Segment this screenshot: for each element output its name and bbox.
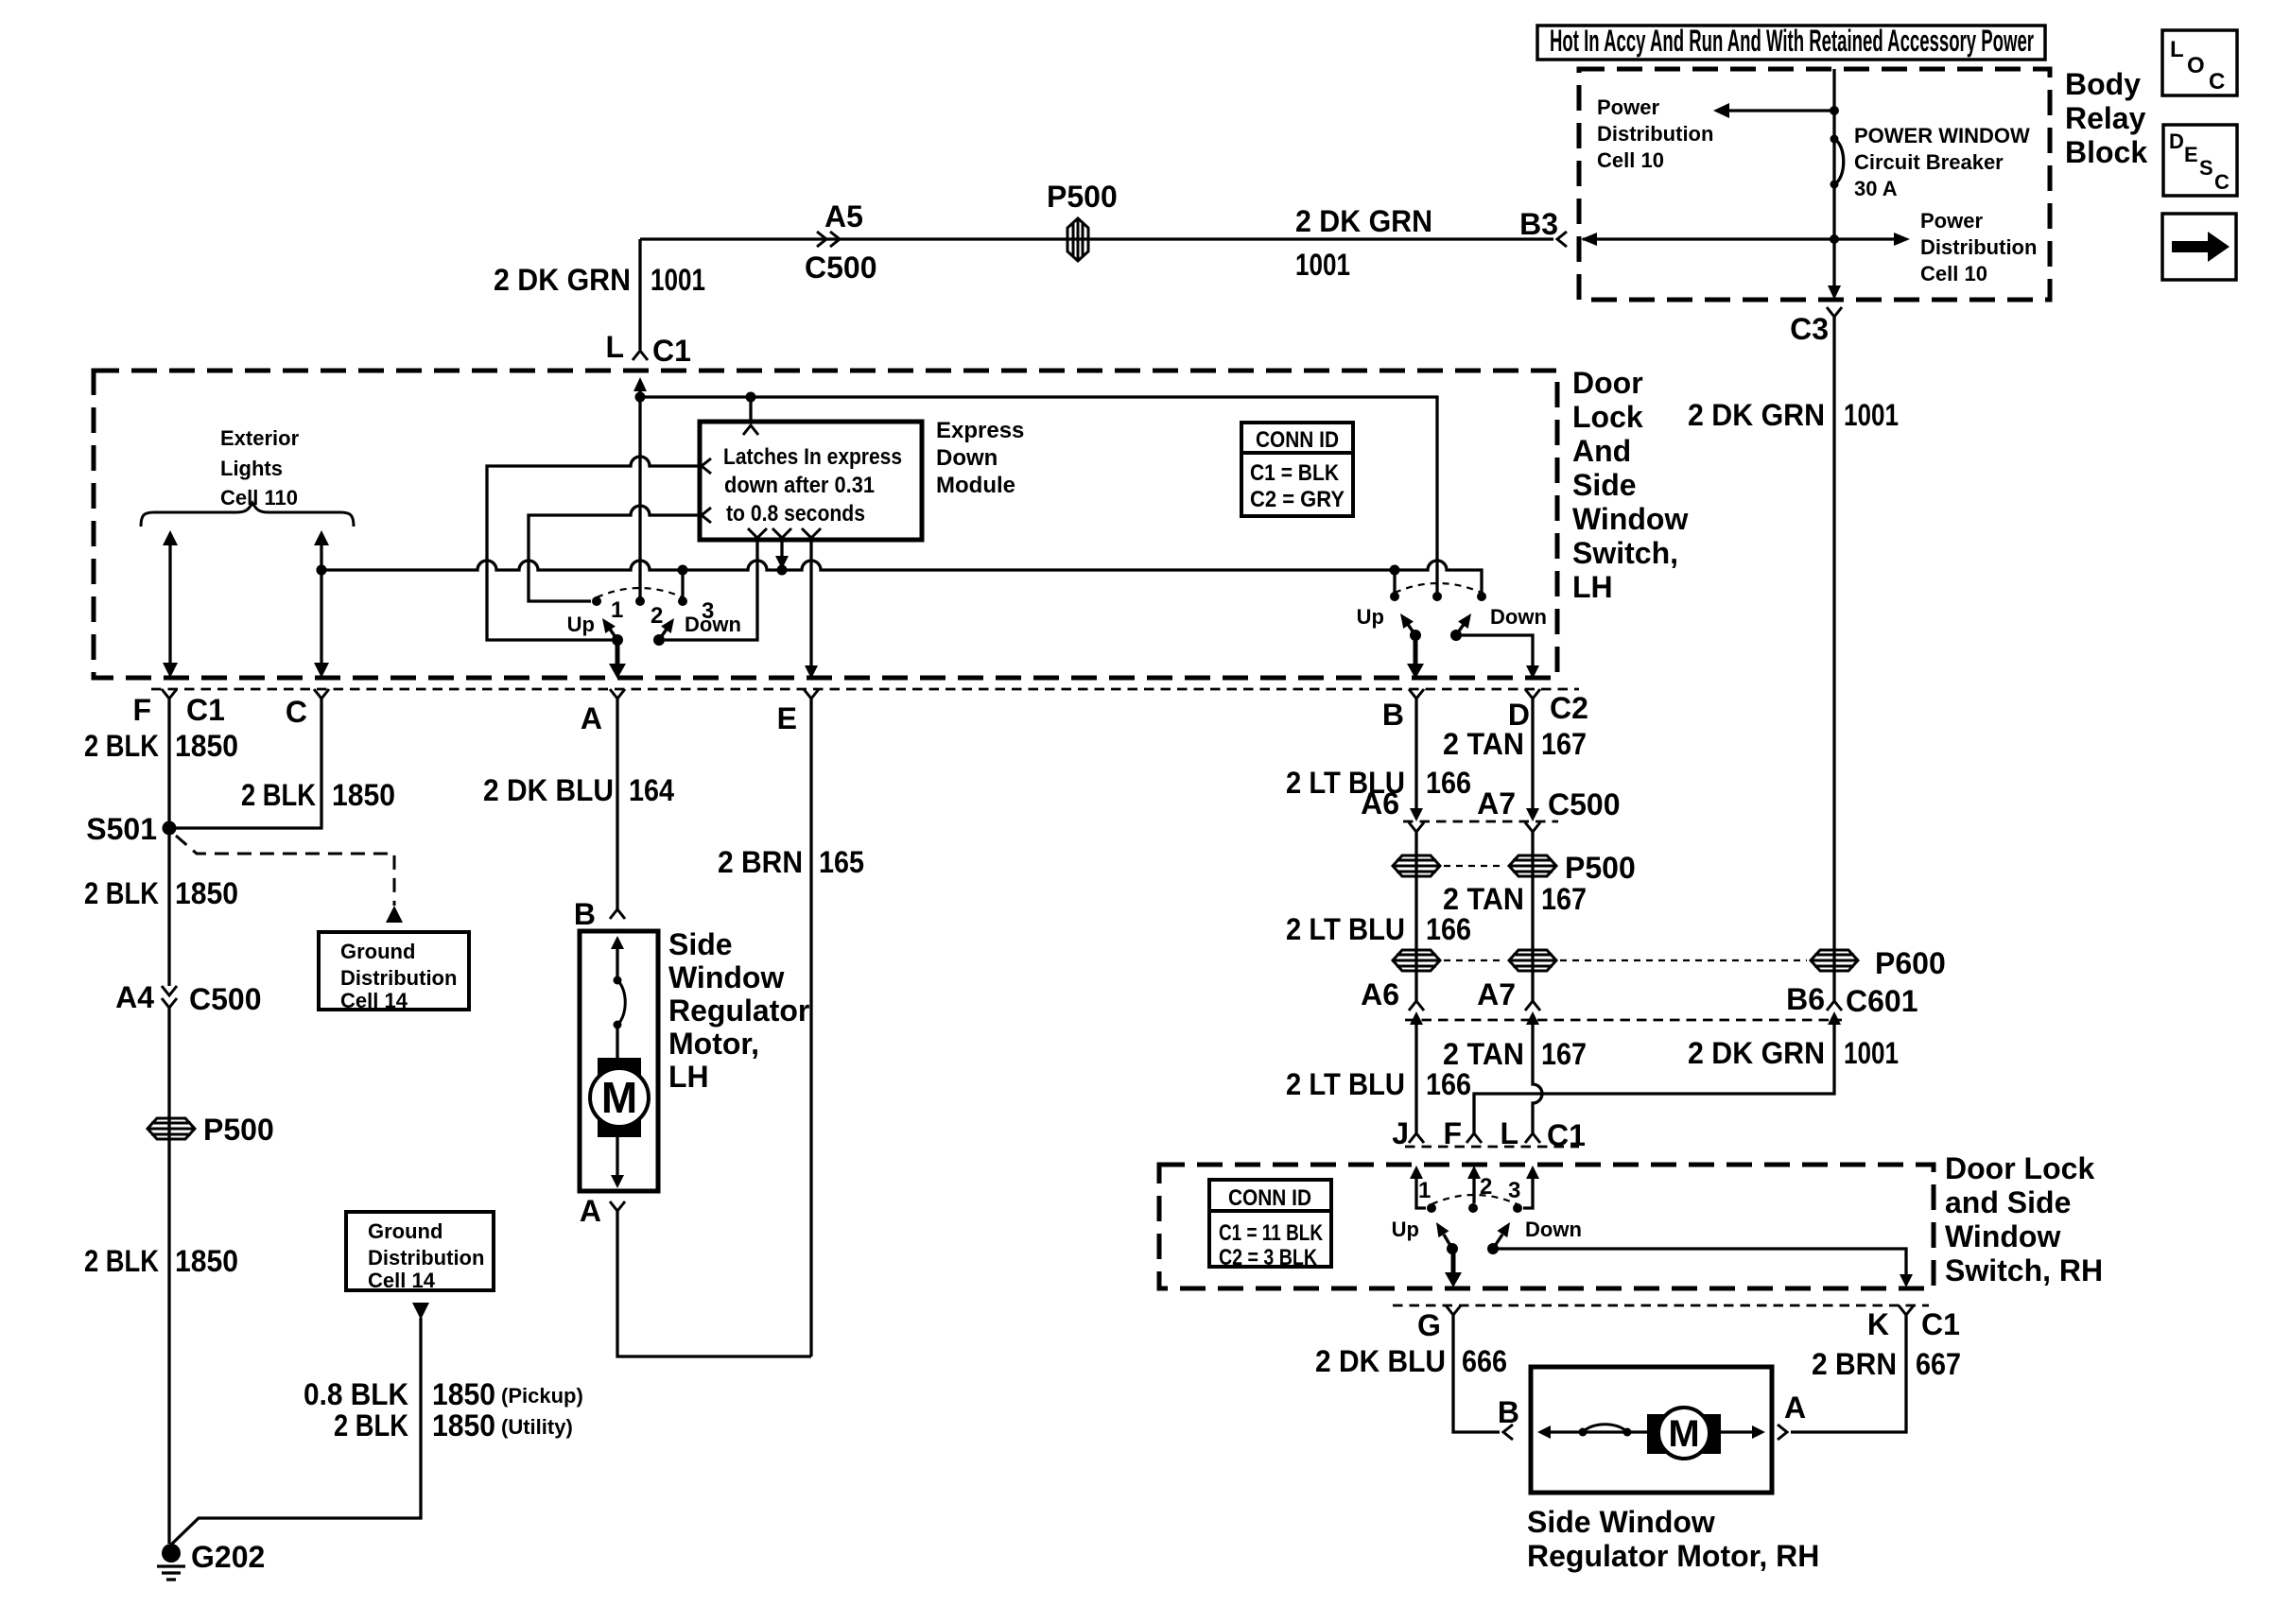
wire: double-arrow to exterior lights via pin F xyxy=(163,530,178,678)
svg-text:A: A xyxy=(581,701,602,735)
component box: Side Window Regulator Motor, RH xyxy=(1527,1367,1819,1573)
grommet P600 row (left) xyxy=(1393,950,1440,971)
svg-text:166: 166 xyxy=(1426,766,1471,800)
svg-text:1: 1 xyxy=(611,597,623,623)
component box: Side Window Regulator Motor, LH xyxy=(580,927,809,1191)
svg-text:C: C xyxy=(2209,69,2225,95)
svg-text:1850: 1850 xyxy=(332,778,395,812)
component box: Express Down Module xyxy=(700,418,1024,540)
circuit breaker: POWER WINDOW Circuit Breaker 30 A xyxy=(1831,124,2030,200)
svg-text:Power: Power xyxy=(1920,209,1983,233)
wire: 2 TAN 167 from pin D to connector A7 xyxy=(1526,699,1539,821)
feed label box: Hot In Accy And Run And With Retained Accessory Power xyxy=(1537,24,2045,60)
svg-text:S: S xyxy=(2199,156,2213,180)
svg-text:2 DK GRN: 2 DK GRN xyxy=(1688,398,1825,432)
wire label: 2 DK GRN 1001 (top run) xyxy=(1295,204,1432,282)
svg-text:1001: 1001 xyxy=(651,263,705,297)
svg-text:C1: C1 xyxy=(1547,1118,1586,1152)
svg-text:Ground: Ground xyxy=(340,940,415,963)
svg-text:2 DK GRN: 2 DK GRN xyxy=(494,263,631,297)
connector pin A (motor RH) xyxy=(1778,1391,1806,1440)
svg-text:G202: G202 xyxy=(191,1540,265,1574)
legend box: next-page arrow xyxy=(2162,214,2236,280)
svg-text:E: E xyxy=(777,701,797,735)
pin: module left input 2 chevron xyxy=(702,508,711,523)
wire: 2 DK GRN through P600 xyxy=(1832,945,1835,1001)
motor M symbol (LH) xyxy=(590,1025,649,1137)
svg-text:2 DK GRN: 2 DK GRN xyxy=(1688,1036,1825,1070)
svg-text:Up: Up xyxy=(1392,1218,1419,1241)
switch: LH window switch contacts 1 2 3 xyxy=(592,588,714,629)
svg-text:Circuit Breaker: Circuit Breaker xyxy=(1854,150,2004,174)
svg-text:2 DK BLU: 2 DK BLU xyxy=(483,773,614,807)
svg-text:Up: Up xyxy=(1357,605,1384,629)
motor M symbol (RH) xyxy=(1647,1408,1721,1459)
svg-text:POWER WINDOW: POWER WINDOW xyxy=(1854,124,2030,147)
svg-text:Power: Power xyxy=(1597,95,1659,119)
svg-text:30 A: 30 A xyxy=(1854,177,1898,200)
svg-text:1001: 1001 xyxy=(1295,248,1350,282)
svg-text:Side Window: Side Window xyxy=(1527,1505,1715,1539)
svg-text:Module: Module xyxy=(936,473,1015,498)
component box: Ground Distribution Cell 14 (upper) xyxy=(319,932,469,1012)
wire label: 2 LT BLU 166 (middle) xyxy=(1286,912,1471,946)
svg-text:Hot In Accy And Run And With R: Hot In Accy And Run And With Retained Ac… xyxy=(1550,24,2034,58)
svg-text:M: M xyxy=(601,1073,637,1122)
wire label: 2 DK GRN 1001 (drop to switch) xyxy=(494,263,705,297)
grommet P500 (row, right) xyxy=(1444,851,1636,885)
switch: LH Down contact arm and pivot xyxy=(653,613,741,646)
connector pin B3 xyxy=(1519,207,1567,247)
wire: pin J into switch RH contact 1 xyxy=(1410,1166,1426,1208)
svg-text:167: 167 xyxy=(1541,727,1587,761)
wire: Down output to pin D xyxy=(1456,635,1539,679)
svg-text:C2 = 3 BLK: C2 = 3 BLK xyxy=(1219,1245,1318,1270)
svg-text:K: K xyxy=(1867,1307,1889,1341)
svg-text:Window: Window xyxy=(1945,1219,2060,1253)
svg-text:C: C xyxy=(286,695,307,729)
svg-text:and Side: and Side xyxy=(1945,1185,2071,1219)
svg-text:Exterior: Exterior xyxy=(220,426,300,450)
wire: pin L into switch RH contact 3 xyxy=(1523,1166,1539,1208)
svg-text:1001: 1001 xyxy=(1844,1036,1899,1070)
svg-text:Switch,: Switch, xyxy=(1572,536,1678,570)
svg-text:P600: P600 xyxy=(1875,946,1946,980)
svg-text:2 BRN: 2 BRN xyxy=(718,845,803,879)
svg-text:2 BRN: 2 BRN xyxy=(1812,1347,1897,1381)
svg-text:E: E xyxy=(2184,143,2198,166)
svg-text:1: 1 xyxy=(1418,1178,1431,1203)
grommet P500 (top wire) xyxy=(1047,180,1118,261)
connector pin A (motor LH) xyxy=(580,1194,625,1228)
svg-text:1850: 1850 xyxy=(175,1244,238,1278)
pin: module left input 1 chevron xyxy=(702,458,711,474)
connector A4 of C500 (inline) xyxy=(115,980,261,1016)
wire: pin F into switch RH contact 2 xyxy=(1467,1166,1481,1203)
wire: main bus (y=603) with wire hops xyxy=(321,561,1482,596)
connector pin B of C2 xyxy=(1382,689,1424,732)
wire label: 2 TAN 167 (upper) xyxy=(1443,727,1587,761)
svg-text:P500: P500 xyxy=(1565,851,1636,885)
connector row J / F / L of C1 (switch RH) xyxy=(1392,1116,1586,1152)
wire: motor LH internal lead (bottom) xyxy=(611,1137,624,1188)
svg-text:Relay: Relay xyxy=(2065,101,2146,135)
svg-text:C1: C1 xyxy=(1921,1307,1960,1341)
connector pin K of C1 xyxy=(1867,1305,1960,1341)
switch: RH Up arm and pivot xyxy=(1392,1218,1458,1254)
svg-text:0.8 BLK: 0.8 BLK xyxy=(304,1377,408,1411)
svg-text:J: J xyxy=(1392,1116,1409,1150)
wire label: 2 BLK 1850 (bottom left) xyxy=(84,1244,238,1278)
svg-text:C500: C500 xyxy=(189,982,262,1016)
wire: RH Down output to pin K xyxy=(1493,1249,1913,1287)
wire: double-arrow to exterior lights via pin C xyxy=(314,530,329,678)
svg-text:2 BLK: 2 BLK xyxy=(334,1408,408,1443)
svg-text:Latches In express: Latches In express xyxy=(723,444,902,470)
node: bus junction to contact 3 stub xyxy=(678,565,688,602)
svg-text:CONN ID: CONN ID xyxy=(1228,1185,1311,1211)
svg-text:Cell 110: Cell 110 xyxy=(220,486,298,510)
switch: RH-side Up arm and pivot xyxy=(1357,605,1421,641)
splice S501 xyxy=(86,812,176,846)
svg-text:C3: C3 xyxy=(1790,312,1829,346)
svg-text:Side: Side xyxy=(668,927,733,961)
svg-text:2 DK GRN: 2 DK GRN xyxy=(1295,204,1432,238)
svg-text:C500: C500 xyxy=(1548,787,1621,821)
svg-text:L: L xyxy=(605,330,624,364)
svg-text:Down: Down xyxy=(1525,1218,1582,1241)
svg-text:666: 666 xyxy=(1462,1344,1507,1378)
svg-text:Side: Side xyxy=(1572,468,1637,502)
component box: Body Relay Block (dashed) xyxy=(1579,67,2147,300)
svg-text:Cell 14: Cell 14 xyxy=(368,1269,436,1292)
svg-text:C1: C1 xyxy=(186,693,225,727)
connector pin B (motor LH) xyxy=(574,897,625,931)
svg-text:P500: P500 xyxy=(1047,180,1118,214)
connector pin D of C2 xyxy=(1508,689,1588,732)
switch: RH window switch contacts 1 2 3 xyxy=(1418,1174,1522,1213)
wire: 2 DK GRN 1001 right-side drop (x=1940) xyxy=(1832,317,1835,945)
wire: battery feed inside Body Relay Block (vertical, x=1940) xyxy=(1828,69,1841,300)
connector pin B (motor RH) xyxy=(1498,1395,1519,1440)
wire label: 2 DK GRN 1001 (lower) xyxy=(1688,1036,1899,1070)
svg-text:2: 2 xyxy=(651,603,663,629)
svg-text:3: 3 xyxy=(1508,1178,1520,1203)
svg-text:P500: P500 xyxy=(203,1113,274,1147)
svg-text:1850: 1850 xyxy=(432,1408,495,1443)
wire: feed entering switch LH at pin L xyxy=(633,377,647,397)
svg-text:A6: A6 xyxy=(1361,786,1399,821)
svg-text:And: And xyxy=(1572,434,1631,468)
svg-text:A: A xyxy=(1784,1391,1806,1425)
wire: 2 LT BLU 166 from pin B to connector A6 xyxy=(1410,699,1423,821)
connector row A6 / A7 of C500 xyxy=(1361,786,1620,832)
grommet P500 (row, left) xyxy=(1393,855,1440,876)
svg-text:Cell 14: Cell 14 xyxy=(340,989,408,1012)
svg-text:Express: Express xyxy=(936,418,1024,443)
svg-text:down after 0.31: down after 0.31 xyxy=(724,473,875,498)
svg-text:Regulator: Regulator xyxy=(668,993,809,1028)
svg-text:Cell 10: Cell 10 xyxy=(1920,262,1987,285)
connector line C1 below switch RH (thin dashed) xyxy=(1393,1304,1929,1307)
svg-text:S501: S501 xyxy=(86,812,157,846)
wire label: 2 LT BLU 166 (upper) xyxy=(1286,766,1471,800)
wire: 2 TAN 167 down to pin L (hop over DK GRN) xyxy=(1533,1025,1542,1133)
connector pin C xyxy=(286,689,329,729)
svg-text:B3: B3 xyxy=(1519,207,1558,241)
node: junction dot to Power Distribution (left) xyxy=(1830,106,1839,115)
svg-text:G: G xyxy=(1417,1308,1441,1342)
svg-text:167: 167 xyxy=(1541,1037,1587,1071)
svg-text:166: 166 xyxy=(1426,1067,1471,1101)
svg-text:Distribution: Distribution xyxy=(1920,235,2037,259)
svg-text:Block: Block xyxy=(2065,135,2147,169)
wire: 2 DK BLU 164 from pin A to motor LH xyxy=(483,699,674,909)
svg-text:1850: 1850 xyxy=(175,876,238,910)
component box: Door Lock And Side Window Switch, LH (dashed) xyxy=(94,366,1688,678)
svg-text:1001: 1001 xyxy=(1844,398,1899,432)
svg-text:Lights: Lights xyxy=(220,457,283,480)
svg-text:2 TAN: 2 TAN xyxy=(1443,882,1524,916)
node: junction at x=794 y=420 xyxy=(746,392,756,403)
wire: motor RH internal lead with arrows xyxy=(1537,1425,1765,1439)
wire: module input 1 from Up pivot (with hop over x=677) xyxy=(487,457,703,640)
svg-text:C601: C601 xyxy=(1846,984,1918,1018)
svg-text:Regulator Motor, RH: Regulator Motor, RH xyxy=(1527,1539,1819,1573)
svg-text:2 LT BLU: 2 LT BLU xyxy=(1286,1067,1405,1101)
wire: 2 DK GRN 1001 elbow to pin F xyxy=(1474,1025,1834,1133)
connector pin A xyxy=(581,689,625,735)
wire: ground lead from Cell 14 to G202 xyxy=(171,1303,429,1545)
wire: 2 BLK 1850 from pin F to S501 xyxy=(84,699,238,986)
svg-text:Distribution: Distribution xyxy=(368,1246,484,1270)
svg-text:Ground: Ground xyxy=(368,1219,442,1243)
brace: Exterior Lights Cell 110 xyxy=(141,426,354,527)
svg-text:Switch, RH: Switch, RH xyxy=(1945,1253,2103,1287)
svg-text:167: 167 xyxy=(1541,882,1587,916)
svg-text:Motor,: Motor, xyxy=(668,1027,759,1061)
svg-text:C: C xyxy=(2214,170,2230,194)
svg-text:1850: 1850 xyxy=(175,729,238,763)
svg-text:Up: Up xyxy=(567,613,595,636)
svg-text:Down: Down xyxy=(936,445,998,471)
svg-text:C500: C500 xyxy=(805,251,877,285)
ground G202 xyxy=(157,1540,265,1580)
switch contact inside motor LH (thermal breaker) xyxy=(614,976,626,1029)
node: bus junction at C (340,603) xyxy=(317,565,327,576)
pin: module bottom output chevrons xyxy=(748,528,821,538)
wire: motor LH internal lead (top) xyxy=(611,936,624,980)
svg-text:B: B xyxy=(1498,1395,1519,1429)
wire: 2 DK GRN 1001 top run from switch to B3 xyxy=(640,239,1553,350)
svg-text:2: 2 xyxy=(1480,1174,1492,1200)
svg-text:A7: A7 xyxy=(1477,786,1516,821)
connector row A6 / A7 / B6 of C601 xyxy=(1361,977,1917,1025)
wire label: 2 LT BLU 166 (lower) xyxy=(1286,1067,1471,1101)
wire: internal feed bus (y=420) to express module and RH section xyxy=(640,397,1437,596)
svg-text:Body: Body xyxy=(2065,67,2141,101)
wire: RH Up output thick arrow to pin G xyxy=(1445,1249,1462,1287)
wire: Up output thick arrow to pin A xyxy=(609,640,626,679)
svg-text:C1 = 11 BLK: C1 = 11 BLK xyxy=(1219,1220,1324,1246)
wire label: 2 TAN 167 (lower) xyxy=(1443,1037,1587,1071)
wire: 2 LT BLU 166 through P500 grommet xyxy=(1414,832,1417,1001)
svg-text:A4: A4 xyxy=(115,980,154,1014)
svg-text:Window: Window xyxy=(668,960,784,994)
node: bus junction to RH-section contact stub xyxy=(1390,565,1400,597)
connector pin E xyxy=(777,689,819,735)
wire: 2 BRN 667 from pin K to motor RH pin A xyxy=(1791,1315,1961,1432)
wire: 2 BLK 1850 from A4 to G202 xyxy=(167,1008,170,1544)
switch: LH Up contact arm and pivot xyxy=(567,613,623,646)
svg-text:C1: C1 xyxy=(652,334,691,368)
svg-text:C2 = GRY: C2 = GRY xyxy=(1250,487,1345,512)
switch: RH-side contacts inside switch LH xyxy=(1390,583,1486,601)
connector line C1 below switch LH (thin dashed) xyxy=(151,688,1579,691)
svg-text:Cell 10: Cell 10 xyxy=(1597,148,1664,172)
wire: 2 TAN 167 through P500 grommet xyxy=(1531,832,1534,1001)
wire label: 2 BLK 1850 (below S501) xyxy=(84,876,238,910)
svg-text:2 TAN: 2 TAN xyxy=(1443,1037,1524,1071)
wire: 2 LT BLU 166 down to pin J xyxy=(1414,1025,1417,1133)
svg-text:2 BLK: 2 BLK xyxy=(84,1244,159,1278)
wire: feed drop to switch contact 2 (x=677) xyxy=(638,397,641,601)
svg-text:B: B xyxy=(1382,698,1404,732)
component box: Ground Distribution Cell 14 (lower) xyxy=(346,1212,494,1292)
svg-text:F: F xyxy=(1443,1116,1462,1150)
wire label: 2 DK GRN 1001 (right drop) xyxy=(1688,398,1899,432)
svg-text:Door Lock: Door Lock xyxy=(1945,1151,2094,1185)
svg-text:(Utility): (Utility) xyxy=(501,1415,573,1439)
connector pin G xyxy=(1417,1305,1461,1342)
svg-text:2 BLK: 2 BLK xyxy=(84,729,159,763)
wire: 2 BRN 165 from pin E xyxy=(718,699,864,1356)
svg-text:1850: 1850 xyxy=(432,1377,495,1411)
svg-text:Distribution: Distribution xyxy=(1597,122,1713,146)
legend box: DESC xyxy=(2163,125,2237,196)
svg-text:2 BLK: 2 BLK xyxy=(241,778,316,812)
connector pin L of C1 (switch LH) xyxy=(605,330,690,368)
wire: module input 2 from contact 1 (with hop over x=677) xyxy=(529,506,703,601)
svg-text:F: F xyxy=(132,693,151,727)
svg-text:Down: Down xyxy=(685,613,741,636)
wire: module output to Down pivot xyxy=(665,540,757,640)
wire: 2 BLK 1850 from pin C to S501 xyxy=(175,699,395,828)
component box: Door Lock and Side Window Switch, RH (dashed) xyxy=(1159,1151,2103,1288)
svg-text:B: B xyxy=(574,897,596,931)
svg-text:L: L xyxy=(2170,37,2184,62)
svg-text:C1 = BLK: C1 = BLK xyxy=(1250,460,1340,486)
svg-text:LH: LH xyxy=(1572,570,1613,604)
svg-text:Door: Door xyxy=(1572,366,1643,400)
wire: module output to pin E (x=858) xyxy=(805,540,818,679)
switch: RH Down arm and pivot xyxy=(1487,1218,1582,1254)
svg-text:A7: A7 xyxy=(1477,977,1516,1011)
wire: B3 feed across Body Relay Block with arrow to Power Distribution Cell 10 (right) xyxy=(1581,209,2037,285)
wire label: 2 TAN 167 (middle) xyxy=(1443,882,1587,916)
svg-text:B6: B6 xyxy=(1786,982,1825,1016)
wire label: 2 BLK 1850 (Utility) xyxy=(334,1408,573,1443)
legend box: CONN ID (switch LH) xyxy=(1241,423,1353,516)
svg-text:166: 166 xyxy=(1426,912,1471,946)
wire: arrow to Power Distribution Cell 10 (left) xyxy=(1597,95,1834,172)
wire: motor LH return to pin E xyxy=(617,1211,811,1356)
wire label: 0.8 BLK 1850 (Pickup) xyxy=(304,1377,583,1411)
svg-text:M: M xyxy=(1668,1413,1699,1455)
connector A5 C500 (pass-through chevrons) xyxy=(805,199,877,285)
grommet P600 (right wire) xyxy=(1560,946,1946,980)
svg-text:2 LT BLU: 2 LT BLU xyxy=(1286,912,1405,946)
svg-text:2 DK BLU: 2 DK BLU xyxy=(1315,1344,1446,1378)
svg-text:2 BLK: 2 BLK xyxy=(84,876,159,910)
svg-text:A6: A6 xyxy=(1361,977,1399,1011)
wire: module output arrow to bus (x=827) xyxy=(775,540,789,576)
grommet P500 (left wire) xyxy=(147,1113,274,1147)
grommet P600 row (middle) xyxy=(1444,950,1556,971)
svg-text:O: O xyxy=(2187,53,2205,78)
svg-text:Distribution: Distribution xyxy=(340,966,457,990)
wire: 2 DK BLU 666 from pin G to motor RH pin B xyxy=(1315,1315,1507,1432)
svg-text:2 TAN: 2 TAN xyxy=(1443,727,1524,761)
svg-text:LH: LH xyxy=(668,1060,709,1094)
svg-text:CONN ID: CONN ID xyxy=(1256,427,1339,453)
wire: Up output thick arrow to pin B xyxy=(1407,635,1424,679)
svg-text:164: 164 xyxy=(629,773,674,807)
switch contact inside motor RH (thermal breaker) xyxy=(1579,1425,1632,1437)
svg-text:C2: C2 xyxy=(1550,691,1588,725)
svg-text:A: A xyxy=(580,1194,601,1228)
svg-text:165: 165 xyxy=(819,845,864,879)
wire: dashed link from S501 to Ground Distribution Cell 14 xyxy=(176,836,403,923)
legend box: CONN ID (switch RH) xyxy=(1209,1180,1331,1270)
svg-text:Window: Window xyxy=(1572,502,1688,536)
svg-text:A5: A5 xyxy=(824,199,863,233)
svg-text:(Pickup): (Pickup) xyxy=(501,1384,583,1408)
svg-text:667: 667 xyxy=(1916,1347,1961,1381)
svg-text:to 0.8 seconds: to 0.8 seconds xyxy=(726,501,865,527)
svg-text:Down: Down xyxy=(1490,605,1547,629)
connector pin F of C1 xyxy=(132,689,224,727)
svg-text:D: D xyxy=(2169,130,2184,153)
connector C3 (body relay block output) xyxy=(1790,307,1842,346)
switch: RH-side Down arm and pivot xyxy=(1450,605,1547,641)
pin: module top input chevron xyxy=(743,397,758,435)
node: junction at x=677 y=420 xyxy=(635,392,646,403)
legend box: LOC xyxy=(2162,30,2237,95)
svg-text:L: L xyxy=(1500,1116,1518,1150)
svg-text:Lock: Lock xyxy=(1572,400,1643,434)
